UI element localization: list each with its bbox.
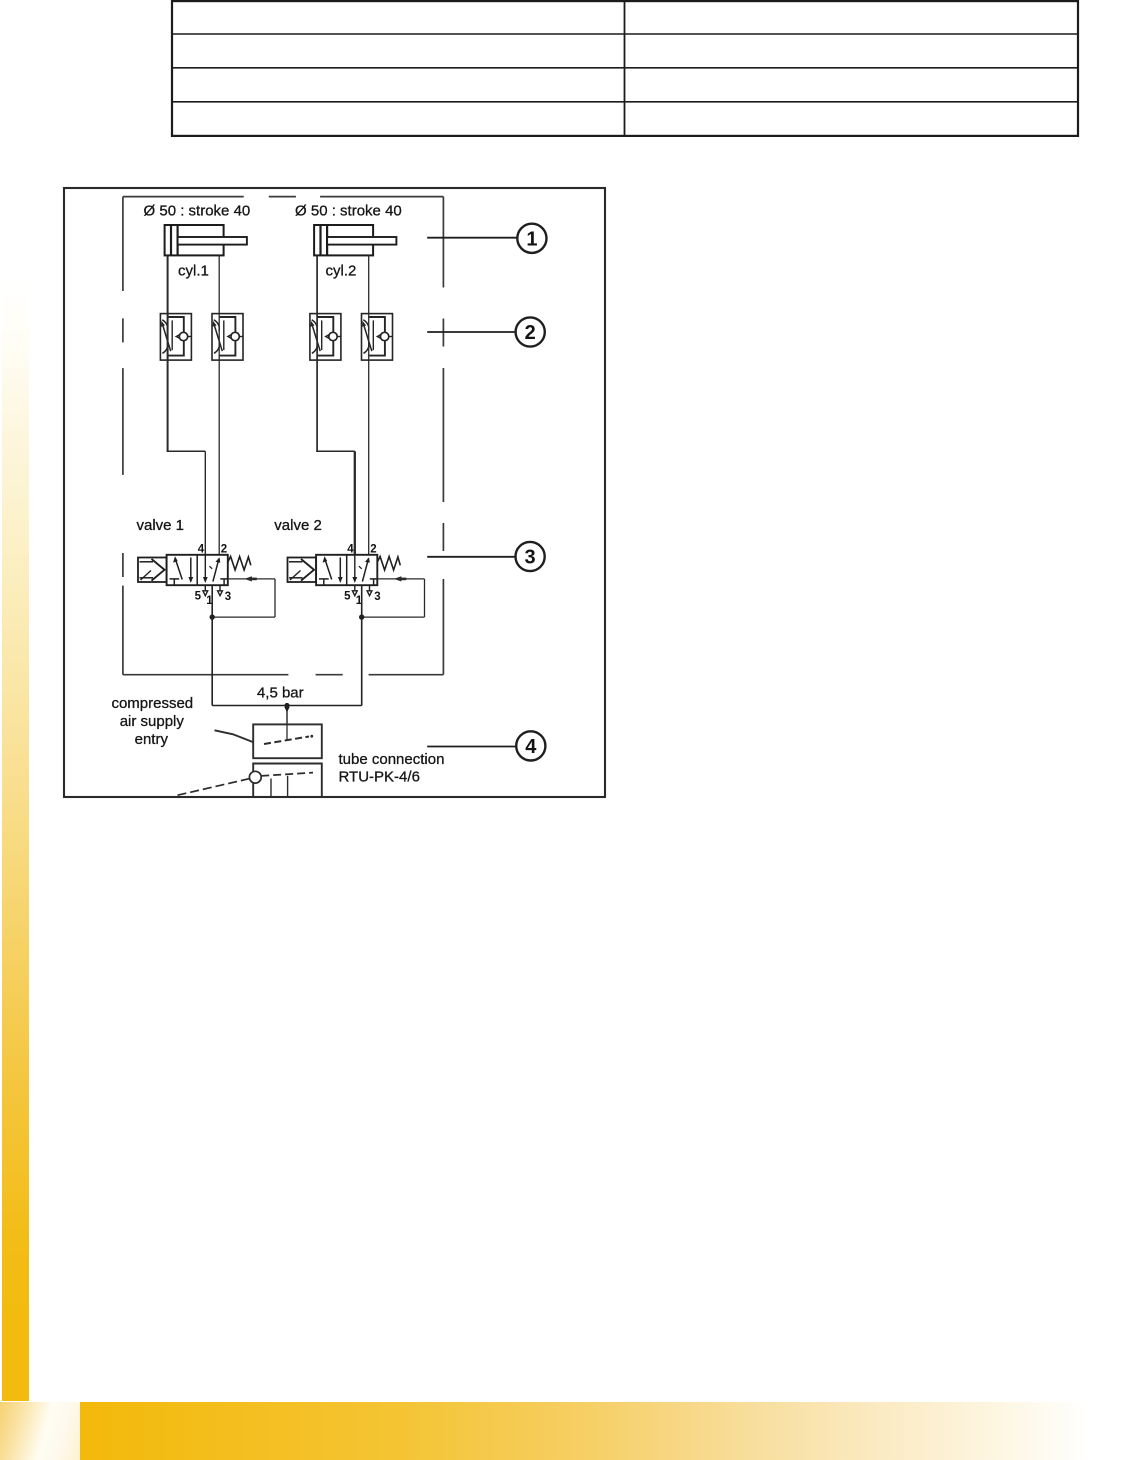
wire cyl.2 left port through FC2a to jog — [316, 255, 318, 452]
5/2 directional valve valve 2 — [288, 544, 401, 607]
svg-text:valve 2: valve 2 — [274, 517, 322, 534]
pilot return loop valve 1 — [210, 576, 276, 619]
svg-text:5: 5 — [195, 591, 202, 603]
wire jog horizontal (valve 2 port 4) — [316, 450, 355, 452]
pointer line to lower box — [178, 779, 250, 796]
wire valve valve 2 port 1 down to supply — [361, 585, 363, 705]
wire cyl.2 right port through FC2b to valve 2 port 2 — [368, 255, 370, 554]
svg-text:compressed: compressed — [111, 695, 193, 712]
svg-text:Ø 50 : stroke 40: Ø 50 : stroke 40 — [295, 203, 402, 220]
table — [172, 1, 1078, 136]
one-way flow control valve FC1a — [160, 314, 191, 361]
svg-text:Ø 50 : stroke 40: Ø 50 : stroke 40 — [144, 203, 251, 220]
label compressed air supply entry — [111, 695, 193, 748]
svg-text:3: 3 — [525, 547, 536, 569]
svg-text:2: 2 — [525, 322, 536, 344]
wire jog horizontal (valve 1 port 4) — [167, 450, 206, 452]
svg-text:3: 3 — [374, 591, 380, 603]
callout 4 — [427, 731, 545, 760]
tube connection lower box — [253, 764, 322, 797]
svg-text:cyl.2: cyl.2 — [326, 263, 357, 280]
coupling circle — [249, 771, 261, 783]
callout 3 — [427, 542, 545, 571]
one-way flow control valve FC2b — [362, 314, 393, 361]
wire valve valve 1 port 1 down to supply — [211, 585, 213, 705]
wire down to valve 1 port 4 — [204, 451, 206, 555]
svg-text:tube connection: tube connection — [339, 751, 445, 768]
svg-text:5: 5 — [344, 591, 351, 603]
svg-text:4: 4 — [525, 736, 537, 758]
one-way flow control valve FC1b — [212, 314, 243, 361]
svg-text:air supply: air supply — [120, 713, 185, 730]
callout 1 — [427, 224, 546, 253]
tube connection upper box — [253, 724, 322, 758]
wire down to valve 2 port 4 — [354, 451, 356, 555]
pilot return loop valve 2 — [359, 576, 425, 619]
bottom-left corner gradient block (decorative) — [0, 1402, 80, 1460]
svg-text:entry: entry — [135, 731, 169, 748]
wire cyl.1 right port through FC1b to valve 1 port 2 — [218, 255, 220, 554]
bottom gold gradient band (decorative) — [0, 1402, 1136, 1460]
pointer line to upper box — [215, 730, 253, 742]
svg-text:4: 4 — [198, 544, 205, 556]
svg-text:valve 1: valve 1 — [137, 517, 185, 534]
svg-text:3: 3 — [225, 591, 231, 603]
wire supply stub — [286, 706, 288, 725]
callout 2 — [427, 317, 545, 346]
svg-text:4,5 bar: 4,5 bar — [257, 685, 304, 702]
left gold gradient strip (decorative) — [2, 281, 29, 1401]
cylinder cyl.2 — [314, 225, 396, 255]
svg-text:1: 1 — [526, 228, 537, 250]
label tube connection RTU-PK-4/6 — [339, 751, 445, 786]
svg-text:2: 2 — [370, 544, 376, 556]
5/2 directional valve valve 1 — [138, 544, 251, 607]
svg-text:2: 2 — [221, 544, 227, 556]
wire cyl.1 left port through FC1a to jog — [167, 255, 169, 452]
svg-text:RTU-PK-4/6: RTU-PK-4/6 — [339, 769, 420, 786]
cylinder cyl.1 — [165, 225, 247, 255]
svg-text:4: 4 — [347, 544, 354, 556]
junction supply — [284, 703, 289, 708]
supply rail — [212, 705, 362, 707]
machine boundary (dashed) — [123, 197, 444, 675]
one-way flow control valve FC2a — [310, 314, 341, 361]
svg-text:cyl.1: cyl.1 — [178, 263, 209, 280]
